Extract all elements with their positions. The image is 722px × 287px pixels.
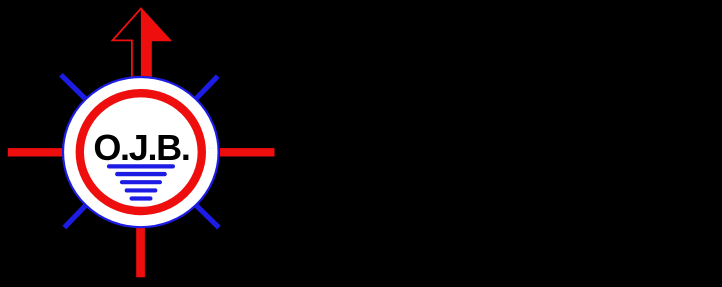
svg-text:O.J.B.: O.J.B. [93,127,191,168]
red ray left [8,148,63,156]
funnel bar 1 [107,164,175,168]
blue diagonal ray bottom-right [191,200,219,228]
funnel bar 5 [130,196,153,200]
white circle with blue outline [63,77,219,227]
red arrow filled right half [141,9,170,77]
red arrow outline [113,9,171,77]
funnel bar 4 [125,188,158,192]
funnel bar 3 [120,180,162,184]
funnel bar 2 [115,172,167,176]
red ring [80,93,202,211]
blue diagonal ray bottom-left [64,200,91,228]
red ray right [220,148,275,156]
blue diagonal ray top-left [61,75,91,104]
red ray bottom [136,222,145,277]
blue diagonal ray top-right [191,76,218,104]
